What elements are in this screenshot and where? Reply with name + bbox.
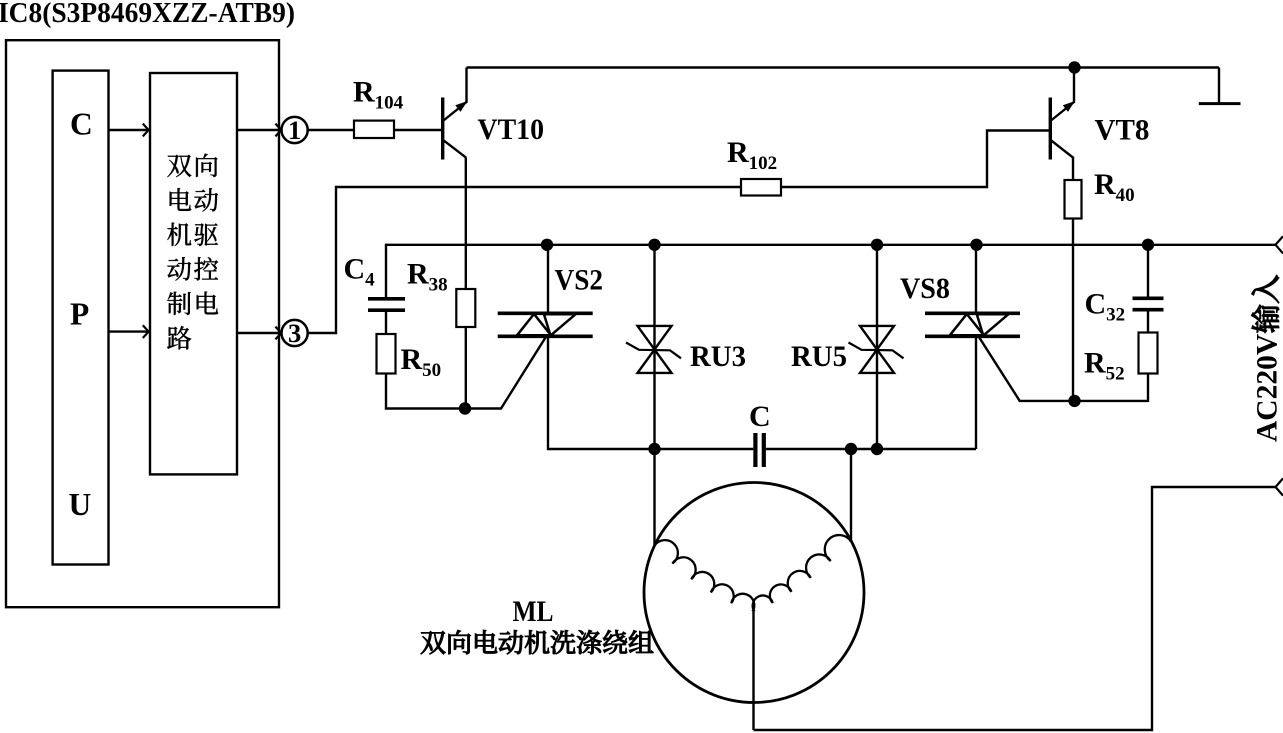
wire R52 to gate wire bbox=[1147, 374, 1149, 403]
junction bus/RU3 bbox=[648, 239, 660, 251]
svg-text:RU3: RU3 bbox=[690, 340, 746, 373]
terminal circle 1 bbox=[282, 115, 308, 145]
wire terminal 3 to R102 run bbox=[308, 187, 741, 333]
junction bus/C32 bbox=[1142, 239, 1154, 251]
varistor RU3 bbox=[626, 244, 681, 449]
IC8 outer box bbox=[6, 40, 279, 607]
svg-text:C: C bbox=[70, 106, 93, 141]
varistor RU5 bbox=[849, 244, 904, 449]
svg-text:VS2: VS2 bbox=[555, 264, 604, 297]
junction bus/VS8 bbox=[970, 239, 982, 251]
CPU sub-block box bbox=[53, 71, 109, 565]
top supply wire bbox=[467, 66, 1220, 68]
wire VS8 down to bottom bus bbox=[975, 336, 977, 449]
label 双向电动机洗涤绕组 bbox=[421, 630, 653, 654]
resistor R38 bbox=[456, 289, 475, 327]
resistor R102 bbox=[741, 179, 781, 196]
terminal circle 3 bbox=[282, 318, 308, 348]
wire C4 to R50 bbox=[385, 310, 387, 334]
transistor VT8 bbox=[1050, 68, 1075, 160]
svg-text:C: C bbox=[749, 400, 771, 433]
motor winding left bbox=[655, 540, 755, 611]
svg-text:AC220V: AC220V bbox=[1252, 334, 1283, 442]
svg-text:VT10: VT10 bbox=[478, 113, 545, 146]
resistor R52 bbox=[1139, 333, 1158, 374]
junction bus/RU5 bbox=[871, 239, 883, 251]
svg-text:ML: ML bbox=[513, 596, 554, 628]
svg-text:VS8: VS8 bbox=[900, 272, 950, 305]
transistor VT10 bbox=[443, 68, 468, 160]
wire P to control block with arrow bbox=[109, 330, 148, 332]
drive control block text 双向电动机驱动控制电路 bbox=[167, 154, 218, 350]
wire bus to C32 bbox=[1147, 245, 1149, 298]
bottom bus junction motor right bbox=[845, 443, 857, 455]
wire terminal 1 to R104 bbox=[308, 129, 354, 131]
triac VS2 bbox=[498, 313, 593, 336]
label AC220V输入 rotated bbox=[1251, 275, 1283, 442]
svg-text:P: P bbox=[70, 296, 89, 331]
resistor R40 bbox=[1065, 180, 1082, 219]
wire bus to VS8 bbox=[975, 245, 977, 313]
junction R38/R50 wire bbox=[459, 402, 471, 414]
resistor R104 bbox=[354, 121, 394, 138]
motor winding right bbox=[753, 535, 851, 611]
motor body circle ML bbox=[644, 483, 864, 703]
motor left lead bbox=[653, 449, 655, 546]
capacitor C32 bbox=[1133, 298, 1164, 309]
motor centre tap wire down bbox=[752, 612, 754, 731]
ground symbol bbox=[1199, 68, 1241, 104]
wire R38 to bottom node bbox=[465, 327, 467, 409]
svg-text:VT8: VT8 bbox=[1095, 114, 1150, 147]
wire control block to terminal 1 with arrow bbox=[237, 129, 280, 131]
junction top wire / VT8 collector bbox=[1068, 61, 1080, 73]
drive control block box bbox=[150, 73, 237, 474]
VS8 gate wire to R52 branch bbox=[979, 336, 1149, 401]
bottom bus junction RU3/motor left bbox=[648, 443, 660, 455]
svg-text:IC8(S3P8469XZZ-ATB9): IC8(S3P8469XZZ-ATB9) bbox=[0, 0, 295, 29]
bottom bus junction RU5 bbox=[871, 443, 883, 455]
wire VS2 down to bottom bus bbox=[548, 336, 753, 449]
wire C to control block with arrow bbox=[109, 129, 148, 131]
capacitor C4 bbox=[368, 299, 405, 310]
motor right lead bbox=[850, 449, 852, 542]
AC terminal prongs on bus bbox=[1276, 236, 1283, 253]
bottom return wire to AC terminal bbox=[754, 487, 1276, 730]
svg-text:RU5: RU5 bbox=[791, 340, 847, 373]
wire R102 to VT8 base bbox=[781, 131, 1049, 188]
wire C right plate to VS8 branch bbox=[766, 448, 976, 450]
wire VT8 emitter to R40 bbox=[1072, 157, 1074, 181]
triac VS8 bbox=[925, 313, 1020, 336]
svg-text:U: U bbox=[69, 487, 92, 522]
junction R40 line / gate wire bbox=[1068, 395, 1080, 407]
svg-text:3: 3 bbox=[288, 318, 301, 348]
wire bus corner down to C4 bbox=[385, 244, 387, 298]
VT10 emitter wire down to R38 bbox=[465, 157, 467, 289]
wire R50 bottom run to VS2 gate bbox=[386, 338, 546, 409]
AC terminal prongs lower bbox=[1276, 478, 1283, 495]
svg-text:1: 1 bbox=[288, 115, 301, 145]
capacitor C (motor phase) bbox=[755, 433, 763, 467]
main AC bus wire bbox=[386, 244, 1276, 246]
wire control block to terminal 3 with arrow bbox=[237, 332, 280, 334]
wire C32 to R52 bbox=[1147, 310, 1149, 333]
wire R40 down across bus to gate node bbox=[1072, 219, 1074, 402]
resistor R50 bbox=[377, 334, 396, 374]
wire bus to VS2 bbox=[547, 245, 549, 313]
junction bus/VS2 bbox=[541, 239, 553, 251]
wire R104 to VT10 base bbox=[394, 129, 441, 131]
